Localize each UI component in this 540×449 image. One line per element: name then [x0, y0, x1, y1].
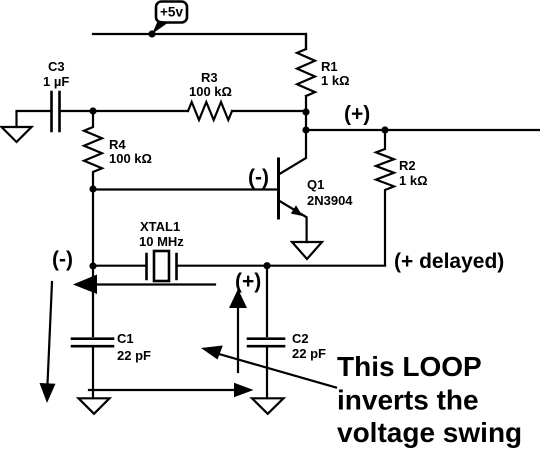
svg-text:inverts the: inverts the	[337, 385, 479, 416]
ground (C3)	[2, 127, 32, 142]
svg-text:(+): (+)	[344, 103, 370, 126]
svg-text:1 kΩ: 1 kΩ	[321, 73, 350, 88]
svg-text:100 kΩ: 100 kΩ	[189, 84, 232, 99]
svg-text:2N3904: 2N3904	[307, 193, 353, 208]
node dot collector (+)	[302, 126, 309, 133]
wire node to C1	[92, 266, 94, 336]
svg-text:voltage swing: voltage swing	[337, 417, 522, 448]
wire (+) output line	[306, 129, 540, 131]
node dot base junction	[89, 185, 96, 192]
annotation pointer arrow to loop text	[219, 354, 336, 388]
svg-text:1 µF: 1 µF	[43, 74, 69, 89]
svg-text:C3: C3	[48, 59, 65, 74]
svg-text:R4: R4	[109, 137, 126, 152]
svg-text:This LOOP: This LOOP	[337, 351, 482, 382]
svg-text:100 kΩ: 100 kΩ	[109, 151, 152, 166]
node dot C3/R4 junction	[89, 107, 96, 114]
transistor Q1 emitter	[280, 201, 307, 242]
svg-text:R2: R2	[399, 158, 416, 173]
crystal XTAL1 body	[154, 251, 169, 281]
annotation arrow right (bottom)	[89, 389, 235, 391]
node dot R2 top	[381, 126, 388, 133]
svg-text:+5v: +5v	[160, 5, 183, 20]
wire C1 to ground	[92, 348, 94, 398]
transistor Q1 collector	[280, 130, 307, 174]
annotation arrow left (under crystal)	[97, 283, 215, 285]
wire node to C2	[266, 266, 268, 336]
resistor R2	[376, 130, 394, 265]
wire C3 to R3	[60, 110, 189, 112]
wire R1 bottom to collector node	[305, 96, 307, 130]
svg-text:Q1: Q1	[307, 177, 324, 192]
svg-text:R3: R3	[201, 70, 218, 85]
node dot R3/R1	[302, 108, 309, 115]
resistor R4	[84, 111, 102, 189]
node dot crystal right / C2	[263, 262, 270, 269]
resistor R3	[188, 102, 232, 120]
svg-text:XTAL1: XTAL1	[140, 219, 180, 234]
node dot crystal left	[89, 262, 96, 269]
ground (emitter)	[292, 242, 322, 259]
wire R4 node down to crystal line	[92, 189, 94, 266]
crystal XTAL1 plates	[147, 254, 177, 279]
svg-text:(-): (-)	[52, 248, 73, 271]
svg-text:(+ delayed): (+ delayed)	[394, 250, 504, 273]
svg-text:10 MHz: 10 MHz	[139, 234, 184, 249]
wire base	[93, 188, 277, 190]
capacitor C3	[52, 92, 60, 131]
svg-text:R1: R1	[321, 59, 338, 74]
svg-text:(+): (+)	[235, 270, 261, 293]
callout tail	[152, 21, 169, 35]
svg-text:C1: C1	[117, 331, 134, 346]
capacitor C1	[72, 339, 113, 347]
svg-text:22 pF: 22 pF	[292, 346, 326, 361]
ground (C2)	[252, 398, 284, 414]
+5v supply callout box	[156, 2, 187, 23]
svg-text:(-): (-)	[248, 166, 269, 189]
svg-text:1 kΩ: 1 kΩ	[399, 173, 428, 188]
resistor R1	[297, 34, 315, 96]
annotation arrow up (near C2)	[237, 307, 239, 372]
transistor Q1 base bar	[277, 159, 280, 218]
wire +5V rail	[93, 34, 306, 49]
junction dot at +5v tap	[148, 30, 155, 37]
wire C2 to ground	[266, 348, 268, 398]
wire crystal left	[93, 265, 146, 267]
transistor Q1 emitter arrow	[291, 205, 303, 216]
annotation arrow down (left side)	[48, 282, 53, 384]
svg-text:C2: C2	[292, 331, 309, 346]
wire R3 to R1	[232, 110, 306, 112]
svg-text:22 pF: 22 pF	[117, 348, 151, 363]
ground (C1)	[79, 398, 110, 414]
wire crystal right to R2 bottom	[177, 265, 385, 267]
capacitor C2	[248, 339, 284, 347]
wire ground to C3	[17, 111, 52, 127]
